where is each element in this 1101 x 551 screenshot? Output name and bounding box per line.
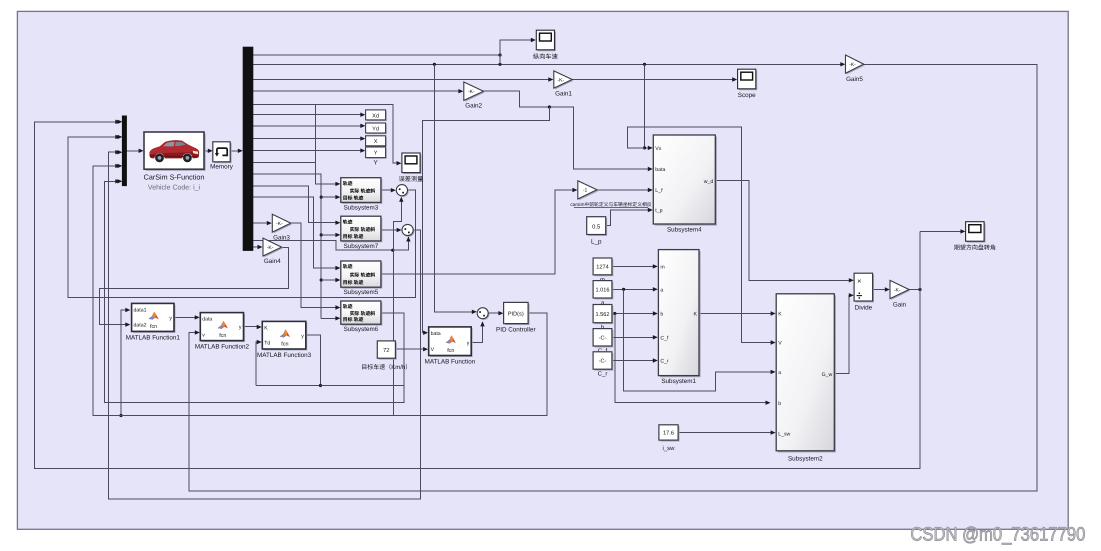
svg-text:L_sw: L_sw <box>778 431 790 437</box>
svg-text:Memory: Memory <box>210 164 234 171</box>
wire stub to Subsystem5 in2 <box>321 279 338 281</box>
svg-text:C_r: C_r <box>598 371 608 378</box>
block constant 17.6 <box>660 426 679 441</box>
svg-text:PID(s): PID(s) <box>508 311 524 318</box>
svg-text:目标 轨迹: 目标 轨迹 <box>343 233 364 240</box>
sum Sum1 <box>396 185 408 197</box>
sum PID input <box>477 308 489 320</box>
wire MF1 to MF2 <box>174 316 197 318</box>
gain Gain4 <box>263 238 283 265</box>
svg-text:a: a <box>778 370 781 376</box>
svg-text:y: y <box>301 333 304 339</box>
svg-text:Gain3: Gain3 <box>273 235 290 242</box>
wire Gain3 to Subsystem6 in1 <box>291 223 338 307</box>
svg-text:bata: bata <box>431 331 441 337</box>
wire mux to Gain3 <box>253 222 270 224</box>
wire stub to Subsystem7 in2 <box>321 234 338 236</box>
wire 0.5 to t_0 <box>606 210 651 226</box>
wire Sum2 output chain <box>109 152 421 499</box>
wire to steering scope <box>920 230 963 232</box>
wire mux to Subsystem5 in1 <box>253 197 338 268</box>
wire steering feedback <box>34 122 920 469</box>
svg-text:C_r: C_r <box>660 359 669 365</box>
block Xd <box>367 111 387 121</box>
svg-text:Gain: Gain <box>893 302 907 309</box>
wire mux to Xd <box>253 114 363 116</box>
wire Gain output <box>909 289 920 291</box>
svg-text:K: K <box>694 312 698 318</box>
wire mux to X <box>253 138 363 140</box>
svg-text:t_p: t_p <box>655 208 662 214</box>
block constant C_f <box>595 330 614 347</box>
svg-text:-1: -1 <box>583 188 588 194</box>
wire w_d to Divide x <box>715 181 851 281</box>
svg-text:CarSim S-Function: CarSim S-Function <box>144 173 205 182</box>
wire Memory to big mux <box>230 150 240 152</box>
svg-text:-K-: -K- <box>557 77 564 83</box>
svg-text:fcn: fcn <box>281 342 288 348</box>
svg-text:Scope: Scope <box>738 92 756 99</box>
svg-text:carsim中前轮定义与车辆坐标定义相反: carsim中前轮定义与车辆坐标定义相反 <box>570 201 651 208</box>
svg-text:Vehicle Code: i_i: Vehicle Code: i_i <box>148 184 201 192</box>
wire stub to Subsystem6 in2 <box>321 317 338 319</box>
svg-text:bata: bata <box>655 167 665 173</box>
svg-text:轨迹: 轨迹 <box>343 303 353 310</box>
svg-text:G_w: G_w <box>822 372 833 378</box>
svg-text:Subsystem3: Subsystem3 <box>344 205 379 212</box>
block Yd <box>367 124 387 134</box>
sum Sum2 <box>402 224 414 236</box>
svg-text:MATLAB Function3: MATLAB Function3 <box>257 352 312 359</box>
wire mux top line <box>253 54 500 56</box>
svg-text:MATLAB Function2: MATLAB Function2 <box>195 344 250 351</box>
wire branch link <box>314 105 316 163</box>
wire Subsystem5 to -1 gain <box>381 190 575 274</box>
wire Vx overpass to Subsystem2 V <box>628 127 773 342</box>
wire mux to Y <box>253 150 363 152</box>
wire Sum1 output chain <box>68 137 416 298</box>
block constant 1.016 <box>595 282 614 299</box>
wire Cr to C_r <box>612 360 655 362</box>
wire mux to error scope <box>253 105 399 164</box>
wire Gain1 to Scope <box>572 79 735 81</box>
wire 1.562 to b <box>612 313 655 315</box>
svg-text:-K-: -K- <box>267 245 274 251</box>
svg-text:X: X <box>374 139 378 145</box>
block X <box>367 137 387 147</box>
block Y <box>367 148 387 159</box>
wire 1.016 to a <box>612 288 655 290</box>
svg-text:data: data <box>202 316 212 322</box>
svg-text:V: V <box>431 347 435 353</box>
wire Divide to Gain <box>873 289 888 291</box>
svg-text:Subsystem6: Subsystem6 <box>344 326 379 333</box>
svg-text:Subsystem4: Subsystem4 <box>667 227 702 234</box>
svg-text:误差测量: 误差测量 <box>399 175 424 183</box>
svg-text:Xd: Xd <box>372 112 379 119</box>
wire MF3 out loop <box>256 335 321 385</box>
wire stub to Subsystem3 in2 <box>321 196 338 198</box>
svg-text:MATLAB Function: MATLAB Function <box>425 359 476 366</box>
wire a to Subsystem2 <box>624 289 773 391</box>
wire mux to Gain2 <box>253 90 461 92</box>
wire Subsystem7 to Sum2 <box>381 229 399 231</box>
svg-text:data1: data1 <box>134 307 147 313</box>
wire 17.6 to L_sw <box>678 432 773 434</box>
wire Subsystem6 output feedback <box>105 181 405 402</box>
wire sum1 bottom branch <box>393 197 401 250</box>
svg-text:17.6: 17.6 <box>663 431 674 437</box>
wire sum to PID <box>488 312 501 314</box>
svg-text:Subsystem1: Subsystem1 <box>661 378 696 385</box>
wire mux to Gain4 <box>253 246 260 248</box>
svg-text:1274: 1274 <box>596 265 608 271</box>
svg-text:-K-: -K- <box>468 89 475 95</box>
svg-text:Subsystem2: Subsystem2 <box>788 456 823 463</box>
svg-text:-C-: -C- <box>599 359 607 365</box>
svg-text:实际 轨迹斜: 实际 轨迹斜 <box>350 310 376 317</box>
wire Gain2 branch to bata <box>423 107 550 333</box>
block Subsystem2 <box>776 294 836 453</box>
wire cross vertical <box>392 250 394 415</box>
svg-text:i_sw: i_sw <box>662 445 675 452</box>
svg-text:fcn: fcn <box>150 324 157 330</box>
svg-text:Td: Td <box>264 340 270 346</box>
svg-text:1.562: 1.562 <box>596 312 610 318</box>
svg-text:×: × <box>857 276 861 285</box>
junction b branch <box>613 312 616 315</box>
wire target feed to sums <box>253 237 409 250</box>
block constant 1274 <box>595 259 614 276</box>
block constant 1.562 <box>595 306 614 324</box>
svg-text:Gain1: Gain1 <box>555 91 572 98</box>
junction speed-scope <box>498 63 501 66</box>
svg-text:K: K <box>264 325 268 331</box>
wire mux to Yd <box>253 125 363 127</box>
block MATLAB Function <box>425 327 476 366</box>
svg-text:轨迹: 轨迹 <box>343 180 353 187</box>
gain Gain5 <box>846 55 865 83</box>
arrowheads small mux <box>117 120 122 124</box>
svg-text:Divide: Divide <box>855 305 873 312</box>
svg-text:fcn: fcn <box>219 333 226 339</box>
svg-text:实际 轨迹斜: 实际 轨迹斜 <box>350 187 376 194</box>
wire Subsystem3 to Sum1 <box>381 189 393 191</box>
svg-text:Subsystem5: Subsystem5 <box>344 289 379 296</box>
svg-text:PID Controller: PID Controller <box>496 327 536 334</box>
block Subsystem3 <box>341 178 383 212</box>
svg-text:m: m <box>660 265 664 271</box>
wire 1274 to m <box>612 265 655 267</box>
svg-text:轨迹: 轨迹 <box>343 263 353 270</box>
svg-text:data2: data2 <box>134 323 147 329</box>
wire mux to Subsystem3 in1 <box>253 163 338 184</box>
svg-text:实际 轨迹斜: 实际 轨迹斜 <box>350 226 376 233</box>
wire Gain5 output feedback loop <box>189 64 1037 491</box>
wire MF out to PID sum bottom <box>471 322 482 343</box>
svg-text:y: y <box>169 315 172 321</box>
wire mux to Subsystem7 in1 <box>253 186 338 223</box>
svg-text:y: y <box>239 325 242 331</box>
junction speed-Vx <box>643 63 646 66</box>
svg-text:目标 轨迹: 目标 轨迹 <box>343 279 364 286</box>
svg-text:期望方向盘转角: 期望方向盘转角 <box>954 244 996 252</box>
svg-text:L_p: L_p <box>591 239 602 246</box>
svg-text:72: 72 <box>383 347 389 354</box>
svg-text:-K-: -K- <box>894 287 901 293</box>
block Subsystem6 <box>341 301 383 333</box>
wire speed trunk from mux to Gain5 <box>253 63 843 65</box>
wire 72 to MF V <box>395 348 425 350</box>
svg-text:y: y <box>467 341 470 347</box>
svg-text:目标 轨迹: 目标 轨迹 <box>343 316 364 323</box>
junction Vx branch <box>643 146 646 149</box>
wire K out to Subsystem2 K <box>699 313 773 315</box>
svg-text:Yd: Yd <box>372 125 379 132</box>
junction gain out <box>918 288 921 291</box>
wire G_w to Divide div <box>834 295 851 373</box>
svg-text:a: a <box>660 288 663 294</box>
svg-text:纵向车速: 纵向车速 <box>533 53 558 61</box>
wire speed to PID sum <box>434 64 474 311</box>
block constant C_r <box>595 353 614 370</box>
svg-text:-K-: -K- <box>276 221 283 227</box>
block CarSim S-Function <box>144 132 206 171</box>
svg-text:V: V <box>778 341 782 347</box>
scope steering angle <box>966 222 986 243</box>
wire speed down to Vx <box>645 64 651 148</box>
svg-text:实际 轨迹斜: 实际 轨迹斜 <box>350 272 376 279</box>
svg-text:-K-: -K- <box>849 62 856 68</box>
block Subsystem1 <box>658 250 700 378</box>
gain Gain <box>890 280 910 308</box>
block PID Controller <box>505 304 530 325</box>
svg-text:fcn: fcn <box>447 348 454 354</box>
block MATLAB Function3 <box>257 321 312 359</box>
junction speed-PID <box>433 63 436 66</box>
junction crossing <box>548 105 551 108</box>
wire Gain2 to beta of Subsystem4 <box>484 91 651 169</box>
wire Gain4 to MF1 data2 <box>99 248 288 325</box>
block MATLAB Function1 <box>126 303 181 341</box>
block Subsystem5 <box>341 261 383 296</box>
svg-text:目标 轨迹: 目标 轨迹 <box>343 194 364 201</box>
block constant 72 <box>379 342 397 359</box>
svg-text:-C-: -C- <box>599 336 607 342</box>
svg-text:CSDN @m0_73617790: CSDN @m0_73617790 <box>910 525 1085 546</box>
small input mux <box>122 116 126 186</box>
block Memory <box>213 142 232 163</box>
wire b to Subsystem2 <box>615 314 768 403</box>
svg-text:Gain2: Gain2 <box>465 103 482 110</box>
wire PID output feedback <box>93 166 547 416</box>
wire mux to Gain1 <box>253 79 551 81</box>
block constant 0.5 <box>588 218 607 236</box>
svg-text:Vx: Vx <box>655 146 661 152</box>
wire Cf to C_f <box>612 336 655 338</box>
big output mux <box>243 47 253 250</box>
junction top line <box>498 53 501 56</box>
svg-text:b: b <box>778 401 781 407</box>
gain -1 <box>578 181 598 201</box>
svg-text:w_d: w_d <box>704 179 714 185</box>
svg-text:目标车速（Km/h）: 目标车速（Km/h） <box>361 363 411 371</box>
svg-text:Y: Y <box>374 151 378 157</box>
svg-text:L_f: L_f <box>655 188 663 194</box>
junction a branch <box>622 288 625 291</box>
scope Scope <box>738 69 758 90</box>
block Subsystem7 <box>341 216 383 250</box>
gain Gain3 <box>272 214 292 241</box>
svg-text:0.5: 0.5 <box>592 223 600 230</box>
svg-text:v: v <box>202 333 205 339</box>
wire target distribution line <box>253 174 321 318</box>
scope longitudinal speed <box>536 30 556 51</box>
svg-text:轨迹: 轨迹 <box>343 218 353 225</box>
svg-text:Subsystem7: Subsystem7 <box>344 243 379 250</box>
svg-text:K: K <box>778 312 782 318</box>
scope error measurement <box>402 153 422 174</box>
svg-text:b: b <box>660 312 663 318</box>
block MATLAB Function2 <box>195 313 250 351</box>
wire -1 gain to L_f <box>597 189 651 191</box>
wire MF1 data1 from PID line <box>121 310 128 416</box>
svg-text:MATLAB Function1: MATLAB Function1 <box>126 335 181 342</box>
wire Td loop <box>256 342 259 386</box>
svg-text:C_f: C_f <box>660 336 669 342</box>
wire CarSim to Memory <box>204 150 210 152</box>
svg-text:1.016: 1.016 <box>596 288 610 294</box>
wire small mux to CarSim <box>126 150 141 152</box>
svg-text:Gain4: Gain4 <box>264 258 281 265</box>
gain Gain2 <box>464 82 485 110</box>
gain Gain1 <box>554 71 574 98</box>
block Subsystem4 <box>653 135 717 226</box>
block Divide <box>854 273 874 302</box>
wire speed to longitudinal scope <box>500 40 533 64</box>
wire MF2 to MF3 K <box>244 326 260 328</box>
svg-text:Gain5: Gain5 <box>846 76 863 83</box>
